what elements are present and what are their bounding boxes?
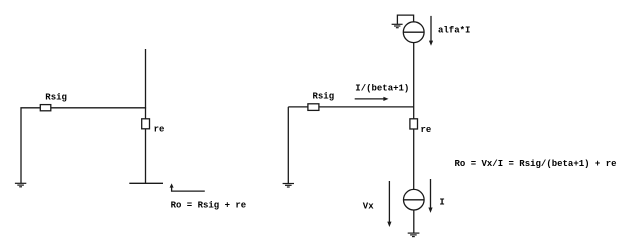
wire left circuit: left vertical + horizontal to Rsig	[21, 108, 40, 184]
svg-text:re: re	[154, 125, 165, 135]
wire right circuit: re to bottom source	[413, 129, 415, 189]
ground (right circuit, top)	[392, 24, 403, 27]
svg-text:Ro = Vx/I = Rsig/(beta+1) + re: Ro = Vx/I = Rsig/(beta+1) + re	[455, 159, 617, 169]
svg-text:re: re	[421, 125, 432, 135]
svg-text:Vx: Vx	[363, 201, 374, 211]
wire right circuit: Rsig to node	[319, 106, 414, 108]
arrow alfa*I (down)	[430, 16, 432, 41]
wire right circuit: left vertical down	[287, 107, 289, 184]
wire left circuit: vertical collector line top	[145, 49, 147, 119]
wire right circuit: base horizontal, left of Rsig	[288, 106, 308, 108]
svg-text:alfa*I: alfa*I	[438, 25, 470, 35]
svg-text:Rsig: Rsig	[45, 92, 67, 102]
pointer arrow to output node (left circuit)	[172, 187, 205, 191]
svg-text:I: I	[439, 198, 444, 208]
wire left circuit: below re to rail	[145, 129, 147, 184]
resistor re (left circuit)	[142, 119, 150, 129]
current source alfa*I (top circle)	[403, 22, 424, 43]
arrow I (down, right of bottom source)	[430, 179, 432, 208]
arrow I/(beta+1) (right)	[355, 98, 385, 100]
resistor Rsig (right circuit)	[308, 104, 319, 111]
ground (right circuit, bottom)	[408, 233, 420, 237]
current source I (bottom circle)	[404, 189, 425, 210]
svg-text:Rsig: Rsig	[313, 92, 335, 102]
node rail (left circuit bottom bar)	[129, 182, 163, 184]
arrow Vx (down, left of bottom source)	[388, 181, 390, 222]
resistor Rsig (left circuit)	[40, 105, 51, 111]
wire left circuit: Rsig to collector node	[51, 107, 146, 109]
resistor re (right circuit)	[410, 119, 418, 129]
ground (right circuit, left)	[283, 184, 294, 188]
svg-text:Ro = Rsig + re: Ro = Rsig + re	[171, 201, 247, 211]
svg-text:I/(beta+1): I/(beta+1)	[355, 83, 409, 93]
wire right circuit: top ground stub	[397, 15, 413, 24]
wire right circuit: bottom circle to ground	[413, 210, 415, 233]
wire right circuit: top circle to node	[413, 43, 415, 119]
ground (left circuit, under Rsig)	[15, 183, 26, 187]
